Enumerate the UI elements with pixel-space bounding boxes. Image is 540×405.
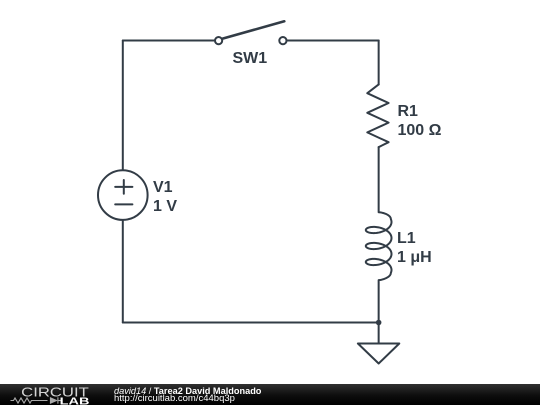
label V1 value: [153, 178, 177, 216]
wire left vertical upper: [122, 41, 124, 170]
label L1 value: [397, 229, 432, 267]
svg-text:LAB: LAB: [60, 397, 90, 405]
label R1 value: [398, 102, 442, 140]
wire bottom horizontal: [123, 322, 379, 324]
label SW1: [233, 49, 268, 68]
wire left vertical lower: [122, 220, 124, 322]
inductor L1: [366, 147, 392, 343]
junction node: [376, 320, 382, 326]
ground: [358, 344, 399, 364]
footer line 2: [114, 394, 235, 404]
wire top-left horizontal: [123, 40, 214, 42]
wire right vertical upper: [378, 41, 380, 85]
switch SW1: [215, 21, 287, 44]
footer line 1: [114, 386, 261, 396]
wire top-right horizontal: [287, 40, 378, 42]
voltage source V1: [98, 170, 148, 220]
footer bar: [0, 384, 540, 405]
logo circuitlab: [0, 384, 110, 405]
resistor R1: [367, 84, 388, 147]
